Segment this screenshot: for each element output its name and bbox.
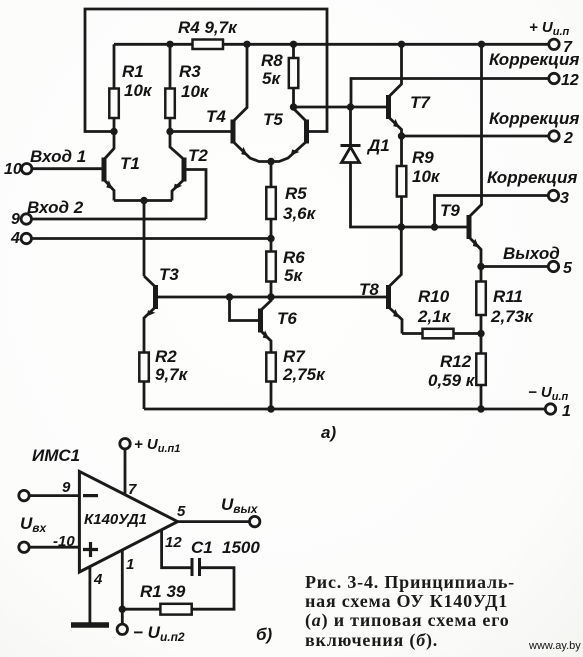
node R7 bottom bbox=[267, 405, 274, 412]
resistor R12 bbox=[476, 334, 486, 410]
resistor R2 bbox=[139, 353, 149, 410]
pin 1 bbox=[545, 404, 555, 414]
resistor R1 of circuit b bbox=[122, 604, 191, 615]
node R8 top bbox=[290, 41, 297, 48]
capacitor C1 bbox=[192, 558, 234, 609]
svg-text:а): а) bbox=[321, 423, 336, 442]
svg-text:T2: T2 bbox=[188, 146, 208, 165]
plus sign in op-amp bbox=[83, 542, 98, 557]
wire T2 collector to T4 base bbox=[170, 130, 233, 133]
svg-text:12: 12 bbox=[561, 72, 579, 89]
svg-text:5: 5 bbox=[177, 503, 186, 520]
svg-text:4: 4 bbox=[10, 230, 20, 247]
svg-text:R1 39: R1 39 bbox=[140, 582, 186, 601]
svg-text:R1: R1 bbox=[122, 62, 144, 81]
labels circuit b bbox=[20, 436, 273, 644]
transistor T1 bbox=[104, 132, 115, 201]
svg-text:T5: T5 bbox=[263, 110, 283, 129]
transistor T4 bbox=[233, 44, 271, 161]
node R10 R11 R12 bbox=[477, 330, 484, 337]
node R9 bottom T8 collector bbox=[398, 223, 405, 230]
resistor R10 bbox=[402, 329, 481, 339]
pin 2 Коррекция bbox=[402, 131, 560, 141]
svg-text:2,73к: 2,73к bbox=[490, 307, 534, 326]
wire pin 1 bbox=[121, 550, 124, 609]
svg-text:T3: T3 bbox=[159, 265, 179, 284]
output wire pin 5 bbox=[178, 516, 260, 526]
svg-text:R8: R8 bbox=[261, 51, 283, 70]
resistor R3 bbox=[165, 44, 175, 131]
pin 7 terminal bbox=[549, 39, 559, 49]
node R1 junction bbox=[119, 606, 126, 613]
svg-text:3: 3 bbox=[560, 190, 569, 207]
svg-text:R6: R6 bbox=[283, 248, 305, 267]
svg-text:Коррекция: Коррекция bbox=[489, 50, 579, 69]
svg-text:2,75к: 2,75к bbox=[282, 365, 326, 384]
pin 10 Вход 1 bbox=[22, 164, 105, 174]
svg-text:R4 9,7к: R4 9,7к bbox=[178, 18, 238, 37]
svg-text:T4: T4 bbox=[206, 107, 226, 126]
node T6 base bbox=[226, 293, 233, 300]
transistor T3 bbox=[144, 276, 156, 353]
svg-text:R12: R12 bbox=[440, 352, 472, 371]
svg-text:3,6к: 3,6к bbox=[283, 204, 317, 223]
pin 9 Вход 2 bbox=[21, 214, 206, 224]
input pin 9 wire bbox=[19, 490, 80, 500]
transistor T5 bbox=[271, 107, 307, 162]
resistor R9 bbox=[397, 136, 407, 227]
svg-text:Вход 1: Вход 1 bbox=[30, 147, 86, 166]
transistor T6 bbox=[230, 297, 272, 353]
svg-text:б): б) bbox=[256, 625, 273, 644]
svg-text:10к: 10к bbox=[124, 81, 153, 100]
svg-text:9,7к: 9,7к bbox=[155, 365, 189, 384]
svg-text:R7: R7 bbox=[283, 347, 306, 366]
transistor T9 bbox=[469, 44, 482, 266]
svg-text:ИМС1: ИМС1 bbox=[32, 446, 80, 465]
svg-text:1500: 1500 bbox=[222, 538, 260, 557]
node T2 collector bbox=[166, 128, 173, 135]
pin +Uип1 terminal bbox=[120, 439, 130, 495]
resistor R7 bbox=[266, 353, 276, 410]
wire -V rail bbox=[144, 408, 545, 411]
pin 4 wire bbox=[21, 233, 271, 243]
wire +V rail left segment bbox=[114, 43, 193, 46]
node T9 collector on rail bbox=[478, 41, 485, 48]
svg-text:10к: 10к bbox=[412, 167, 441, 186]
svg-text:R9: R9 bbox=[412, 148, 434, 167]
node T4 T5 emitters bbox=[267, 158, 274, 165]
svg-text:R2: R2 bbox=[155, 347, 177, 366]
node T4 collector on rail bbox=[243, 41, 250, 48]
pin 12 Коррекция bbox=[351, 73, 559, 107]
svg-text:5к: 5к bbox=[262, 69, 281, 88]
svg-text:включения (б).: включения (б). bbox=[305, 630, 438, 651]
pin 5 Выход bbox=[481, 261, 559, 271]
svg-text:12: 12 bbox=[165, 534, 182, 551]
svg-text:9: 9 bbox=[11, 211, 20, 228]
node R3 top bbox=[166, 41, 173, 48]
circuit b bbox=[19, 439, 260, 635]
node emitters T1 T2 bbox=[140, 197, 147, 204]
node T7 collector on rail bbox=[398, 41, 405, 48]
ground pin 4 bbox=[71, 567, 109, 625]
svg-text:Выход: Выход bbox=[503, 244, 560, 263]
wire T7 base line bbox=[294, 106, 389, 109]
svg-text:Коррекция: Коррекция bbox=[487, 168, 577, 187]
svg-text:T9: T9 bbox=[440, 201, 460, 220]
svg-text:Вход 2: Вход 2 bbox=[27, 198, 84, 217]
wire top feedback loop T1 collector to T5 base bbox=[85, 9, 327, 132]
svg-text:9: 9 bbox=[62, 479, 71, 496]
labels circuit a bbox=[4, 18, 579, 442]
resistor R8 bbox=[289, 44, 299, 107]
svg-text:С1: С1 bbox=[191, 538, 213, 557]
node output bbox=[477, 263, 484, 270]
wire pin 12 to C1 bbox=[162, 530, 191, 568]
node diode junction bbox=[347, 103, 354, 110]
svg-text:R3: R3 bbox=[179, 62, 201, 81]
transistor T7 bbox=[389, 44, 402, 136]
wire T3 T6 T8 base line bbox=[156, 296, 389, 299]
svg-text:-10: -10 bbox=[53, 533, 75, 550]
node T7 emitter bbox=[398, 132, 405, 139]
svg-text:2,1к: 2,1к bbox=[417, 307, 452, 326]
svg-text:T7: T7 bbox=[410, 93, 431, 112]
svg-text:T1: T1 bbox=[120, 154, 140, 173]
svg-text:Коррекция: Коррекция bbox=[489, 109, 579, 128]
svg-text:5: 5 bbox=[563, 260, 573, 277]
svg-text:7: 7 bbox=[128, 481, 137, 498]
svg-text:Д1: Д1 bbox=[366, 136, 390, 155]
svg-text:1: 1 bbox=[562, 403, 571, 420]
node T9 base bbox=[431, 223, 438, 230]
svg-text:www.ay.by: www.ay.by bbox=[528, 640, 581, 652]
svg-text:5к: 5к bbox=[284, 266, 303, 285]
op-amp U1 triangle bbox=[79, 471, 177, 572]
diode Д1 bbox=[341, 107, 402, 227]
node T1 collector bbox=[110, 128, 117, 135]
svg-text:R11: R11 bbox=[493, 287, 523, 306]
pin 3 Коррекция wire bbox=[401, 190, 558, 227]
terminal -Uип2 bbox=[117, 609, 127, 634]
svg-text:2: 2 bbox=[563, 130, 573, 147]
resistor R5 bbox=[266, 162, 276, 239]
svg-text:1: 1 bbox=[126, 556, 134, 573]
svg-text:ная схема ОУ К140УД1: ная схема ОУ К140УД1 bbox=[305, 591, 508, 611]
resistor R1 bbox=[109, 44, 119, 131]
node R12 bottom bbox=[477, 405, 484, 412]
minus sign in op-amp bbox=[83, 494, 98, 497]
wire +V rail to pin 7 bbox=[223, 43, 549, 46]
svg-text:0,59 к: 0,59 к bbox=[428, 371, 476, 390]
svg-text:4: 4 bbox=[93, 571, 103, 588]
svg-text:(а) и типовая схема его: (а) и типовая схема его bbox=[305, 610, 510, 631]
transistor T8 bbox=[389, 227, 403, 334]
input pin 10 wire bbox=[19, 542, 80, 552]
wire emitter join T1 T2 bbox=[114, 201, 172, 277]
svg-text:10: 10 bbox=[4, 161, 22, 178]
svg-text:R10: R10 bbox=[418, 287, 450, 306]
svg-text:К140УД1: К140УД1 bbox=[84, 511, 147, 528]
node R6 bottom T6 collector bbox=[267, 293, 274, 300]
node R5 R6 pin4 bbox=[267, 235, 274, 242]
node R8 bottom T5 collector bbox=[290, 103, 297, 110]
caption text bbox=[305, 572, 515, 651]
resistor R11 bbox=[476, 267, 486, 334]
transistor T2 bbox=[170, 132, 206, 220]
resistor R4 bbox=[193, 40, 224, 50]
svg-text:10к: 10к bbox=[181, 82, 210, 101]
svg-text:T6: T6 bbox=[277, 309, 297, 328]
svg-text:R5: R5 bbox=[285, 184, 307, 203]
resistor R6 bbox=[266, 239, 276, 298]
svg-text:Рис. 3-4. Принципиаль-: Рис. 3-4. Принципиаль- bbox=[305, 572, 515, 592]
svg-text:T8: T8 bbox=[359, 280, 379, 299]
